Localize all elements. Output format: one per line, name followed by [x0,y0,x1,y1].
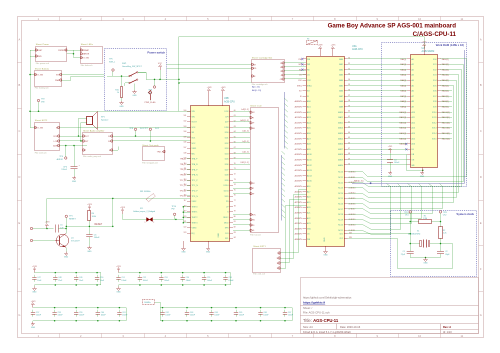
U6A ground [323,246,328,257]
System clock group box [391,211,477,277]
svg-text:GND: GND [72,181,77,183]
svg-text:61: 61 [234,115,236,117]
wire audio out to CPU [113,137,191,151]
svg-text:MA10: MA10 [338,111,343,114]
svg-text:AD8: AD8 [307,143,311,146]
svg-text:119: 119 [184,211,187,213]
svg-text:TPD_A: TPD_A [180,189,187,192]
svg-text:C4: C4 [394,159,396,161]
svg-text:MA6: MA6 [339,90,343,93]
capacitor C47 [32,275,42,282]
svg-text:File: ext2.sch: File: ext2.sch [35,151,47,154]
svg-text:101: 101 [183,115,186,117]
svg-text:Sheet: EXT1: Sheet: EXT1 [253,245,266,248]
fuse F11 Jumper_2_Bridged [133,208,176,224]
labels LCD nets [240,109,249,164]
svg-text:PBATT: PBATT [55,79,62,82]
svg-text:TPD_P: TPD_P [192,191,199,193]
svg-text:DD11: DD11 [224,191,229,193]
svg-text:130nF: 130nF [121,280,127,282]
svg-text:MA11: MA11 [338,116,343,119]
svg-text:106: 106 [183,142,186,144]
svg-text:31: 31 [348,63,350,65]
svg-text:TPA_A: TPA_A [180,158,187,161]
sheet EXT2 [35,119,60,155]
svg-text:76: 76 [234,195,236,197]
svg-text:A: A [480,37,482,41]
svg-text:68: 68 [234,152,236,154]
svg-text:117: 117 [184,200,187,202]
svg-text:GND: GND [218,233,220,238]
svg-text:A21: A21 [307,212,310,215]
capacitor C50 [95,272,105,286]
svg-text:A3: A3 [412,74,414,77]
svg-text:I/O13: I/O13 [432,128,437,130]
svg-text:SO2: SO2 [108,141,112,143]
svg-text:73: 73 [234,179,236,181]
svg-text:A25/WN: A25/WN [295,190,303,193]
svg-text:IREQ: IREQ [297,85,302,87]
svg-text:A14: A14 [412,132,415,135]
svg-text:05.NO15: 05.NO15 [349,198,356,200]
capacitor CP4 [61,145,80,176]
svg-text:A11/WN: A11/WN [295,116,303,119]
svg-text:TP14: TP14 [172,206,177,208]
svg-text:GRD: GRD [252,68,257,70]
U2 right pins [432,58,450,141]
svg-text:RA6[1]: RA6[1] [400,90,406,93]
svg-text:TPC_P: TPC_P [192,180,199,182]
svg-text:A17/WN: A17/WN [295,148,303,151]
svg-text:AD14: AD14 [307,174,312,177]
svg-text:XTC23V?: XTC23V? [71,240,81,242]
svg-text:CHARGE: CHARGE [81,53,90,56]
svg-text:RAD9[1]: RAD9[1] [442,106,450,109]
U6B power pins [207,87,227,106]
power +3V3 at C5 [45,222,51,230]
U2 ground [420,168,425,179]
svg-text:SO2: SO2 [192,143,196,145]
svg-text:Work RAM (128k x 16): Work RAM (128k x 16) [436,43,464,47]
svg-text:41: 41 [348,116,350,118]
svg-text:74: 74 [234,184,236,186]
svg-text:RAD12[1]: RAD12[1] [442,121,451,124]
svg-text:PHI: PHI [307,59,311,61]
svg-text:MA1: MA1 [339,63,343,66]
svg-text:GND: GND [32,292,37,294]
wire U6B to LCD lower [233,183,250,231]
svg-text:A16: A16 [307,185,310,188]
svg-text:120uF: 120uF [61,169,67,171]
svg-text:82: 82 [234,227,236,229]
svg-text:C/AGS-CPU-11: C/AGS-CPU-11 [413,31,457,38]
schematic title [328,23,457,38]
svg-text:AD9: AD9 [307,148,311,151]
resistor R3 DNP [307,38,318,44]
svg-text:A22: A22 [307,217,310,220]
sheet EXT1 [253,245,281,276]
svg-text:CK2: CK2 [443,215,447,217]
VCC power and TP6 [146,63,167,94]
svg-text:RAD6[1]: RAD6[1] [442,90,450,93]
svg-text:Size: A4: Size: A4 [303,325,313,329]
wire CK2 [348,239,453,269]
svg-text:TPB_A: TPB_A [180,168,187,171]
svg-text:81: 81 [234,221,236,223]
svg-text:Sheet: Power: Sheet: Power [36,43,49,46]
capacitor C4 100nF [387,146,400,178]
svg-text:ROUT: ROUT [53,136,59,138]
svg-text:A33/WN: A33/WN [295,233,303,236]
svg-text:07.NO17: 07.NO17 [349,209,356,211]
svg-text:100nF: 100nF [214,315,220,317]
svg-text:Title: AGS-CPU-11: Title: AGS-CPU-11 [303,318,339,323]
svg-text:A26/WN: A26/WN [295,196,303,199]
svg-text:A29/WN: A29/WN [295,212,303,215]
svg-text:I/O10: I/O10 [432,112,437,114]
svg-text:TPC_N: TPC_N [192,185,199,187]
sheet Power [35,43,67,65]
svg-text:DPI: DPI [251,117,255,119]
svg-text:IREQ: IREQ [307,85,312,87]
capacitor C62 [160,307,171,322]
U2 left pins [399,58,415,167]
svg-text:Sheet: LCD: Sheet: LCD [250,104,262,107]
svg-text:TPB_B: TPB_B [180,175,187,177]
svg-text:C2: C2 [445,251,447,253]
GND below U6B left [181,247,186,254]
svg-text:100nF: 100nF [288,315,294,317]
svg-text:File: lcd.sch: File: lcd.sch [250,235,261,237]
svg-text:50: 50 [348,164,350,166]
svg-text:VIN: VIN [41,101,45,103]
svg-text:DD4: DD4 [225,153,229,155]
power switch group box [105,49,167,111]
svg-text:GND: GND [206,252,211,254]
svg-text:Date: 2020-10-16: Date: 2020-10-16 [340,325,361,329]
svg-text:I/O6: I/O6 [433,91,437,93]
svg-text:RA15[1]: RA15[1] [399,137,406,140]
svg-text:REVC: REVC [251,214,257,216]
svg-text:MA12: MA12 [338,121,343,124]
svg-text:DD10: DD10 [224,185,229,187]
svg-text:A7: A7 [412,95,414,98]
svg-text:CS2: CS2 [280,79,284,81]
U6B right pins [223,110,235,240]
svg-text:MA7: MA7 [339,95,343,98]
capacitor C53 [159,272,170,286]
svg-text:130nF: 130nF [122,315,128,317]
svg-text:File: AGS-CPU-11.sch: File: AGS-CPU-11.sch [303,310,330,314]
decoupling bank row2 group1 +3V3 [31,301,127,321]
bus A[16..23] entries to U6A [282,151,286,220]
ferrite bead FB2 [143,300,161,308]
svg-text:AD1: AD1 [307,106,311,109]
svg-text:100nF: 100nF [394,162,400,164]
svg-text:AD15: AD15 [307,180,312,183]
svg-text:MA8: MA8 [339,100,343,103]
U6A right pins lower [338,172,355,233]
svg-text:38: 38 [348,100,350,102]
svg-text:I/O9: I/O9 [433,107,437,109]
svg-text:GND: GND [132,95,137,97]
svg-text:A30/WN: A30/WN [295,217,303,220]
svg-text:108: 108 [183,152,186,154]
svg-text:TEST3: TEST3 [192,222,198,224]
svg-text:RAD0[1]: RAD0[1] [442,58,450,61]
svg-text:TPC_B: TPC_B [180,185,187,187]
svg-text:SOUT: SOUT [192,122,198,124]
svg-text:MA5: MA5 [339,84,343,87]
svg-text:A12/WN: A12/WN [295,121,303,124]
svg-text:LOUT: LOUT [83,141,89,143]
svg-text:R3: R3 [307,38,309,40]
svg-text:AD5: AD5 [307,127,311,130]
test point TP2 [29,99,45,112]
svg-text:AD2: AD2 [307,111,311,114]
resistor R1 1.5M [410,215,440,223]
svg-text:104: 104 [183,131,186,133]
svg-text:MOD: MOD [224,222,229,224]
svg-text:A: A [19,37,21,41]
svg-text:F11: F11 [140,208,143,210]
svg-text:A15: A15 [412,137,415,140]
svg-text:SW1-L: SW1-L [109,61,116,63]
svg-text:MA3: MA3 [339,74,343,77]
svg-text:A11: A11 [412,116,415,119]
svg-text:MA18: MA18 [338,153,343,156]
capacitor C51 [116,275,127,282]
bus RAD vertical [464,50,466,183]
svg-text:1: 1 [144,222,145,224]
svg-text:DD6: DD6 [225,164,229,166]
svg-text:NC19: NC19 [338,219,343,221]
svg-text:A24/WN: A24/WN [295,185,303,188]
wire RESET rail [47,198,191,223]
svg-text:AD3: AD3 [307,116,311,119]
decoupling bank row2 group2 [160,308,293,321]
svg-text:FW: FW [172,209,175,211]
test point TP11 CK2 [439,211,447,227]
svg-text:File: leds.sch: File: leds.sch [81,65,93,67]
svg-text:00.NO10: 00.NO10 [349,225,356,227]
svg-text:RAD10[1]: RAD10[1] [442,111,451,114]
svg-text:DD8: DD8 [225,175,229,177]
svg-text:130nF: 130nF [58,315,64,317]
svg-text:MA19: MA19 [338,159,343,162]
svg-text:MOD: MOD [251,220,256,222]
svg-text:102: 102 [183,121,186,123]
test point TP3 [30,227,53,229]
svg-text:A1: A1 [412,63,414,66]
svg-text:100nF: 100nF [165,315,171,317]
svg-text:A15/WN: A15/WN [295,137,303,140]
U6A clock pins [339,232,352,240]
svg-text:RA5[1]: RA5[1] [400,84,406,87]
svg-text:AGB-CPU: AGB-CPU [224,100,235,103]
GND row1 group1 [32,285,37,294]
svg-text:A18: A18 [307,196,310,199]
svg-text:100nF: 100nF [263,315,269,317]
svg-text:D: D [18,175,20,179]
bus label A[0..15] [252,85,262,92]
svg-text:NC17: NC17 [338,209,343,211]
svg-text:AUDIO: AUDIO [57,158,64,161]
svg-text:FB1 100MHz: FB1 100MHz [140,191,151,193]
svg-text:C: C [480,129,482,133]
U2 no-connect marks [405,143,407,151]
svg-text:AD6: AD6 [307,132,311,135]
svg-text:MA16: MA16 [338,143,343,146]
svg-text:A9: A9 [412,106,414,109]
sheet Test pads [142,144,165,165]
svg-text:https://gekkio.fi: https://gekkio.fi [303,301,325,305]
svg-text:NC14: NC14 [338,193,343,195]
capacitor C56 [223,272,234,286]
switch SW1 [107,63,147,86]
labels TPA nets [180,158,191,198]
crystal X1 [408,231,441,248]
svg-text:GND: GND [116,292,121,294]
svg-text:100k: 100k [92,216,96,218]
test point TP4 AUDIO [57,145,67,161]
switch pole GND [132,84,137,98]
svg-text:121: 121 [183,221,186,223]
svg-text:A18/WN: A18/WN [295,153,303,156]
svg-text:System clock: System clock [456,212,474,216]
sheet Buttons [35,67,62,89]
svg-text:TPA_P: TPA_P [192,158,199,161]
svg-text:TP[9..10]: TP[9..10] [157,151,165,153]
svg-text:AD[0..15]: AD[0..15] [252,89,262,92]
U6A no-connect marks [301,58,303,71]
svg-text:RAD13[1]: RAD13[1] [442,127,451,130]
svg-text:NC10: NC10 [338,172,343,174]
svg-text:I/O2: I/O2 [433,69,437,71]
svg-text:105: 105 [183,136,186,138]
svg-text:B: B [19,83,21,87]
svg-text:100nF: 100nF [79,315,85,317]
capacitor C48 [53,272,63,286]
svg-text:80: 80 [234,216,236,218]
svg-text:A08/WN: A08/WN [295,100,303,103]
svg-text:RA0[1]: RA0[1] [400,58,406,61]
svg-text:A5: A5 [412,84,414,87]
svg-text:Ld3[1..5]: Ld3[1..5] [241,109,249,111]
svg-text:CS2: CS2 [307,80,311,82]
svg-text:TPD_B: TPD_B [180,196,187,198]
svg-text:E: E [480,221,482,225]
test point TP5 [109,59,116,77]
svg-text:DPL: DPL [225,238,229,240]
svg-text:123: 123 [183,232,186,234]
svg-text:B: B [480,83,482,87]
svg-text:122: 122 [183,227,186,229]
svg-text:107: 107 [183,147,186,149]
svg-text:SW: SW [109,150,112,152]
svg-text:RA10[1]: RA10[1] [399,111,406,114]
GND row2 group1 [31,321,36,329]
svg-text:TPA_B: TPA_B [180,163,187,166]
svg-text:78: 78 [234,205,236,207]
svg-text:FIQ: FIQ [192,233,196,235]
svg-text:I/O11: I/O11 [432,117,436,119]
svg-text:Ld[1..5]: Ld[1..5] [242,141,249,143]
svg-text:VDD: VDD [225,196,230,198]
svg-text:100nF: 100nF [101,315,107,317]
svg-text:I/O1: I/O1 [433,64,437,66]
svg-text:DPI: DPI [251,188,255,190]
bus A[0..15] entries to U6A [284,92,288,149]
U6B ground pins [184,241,209,247]
bus RAD[0..15] horizontal [352,180,465,185]
svg-text:File: battery.sch: File: battery.sch [35,87,49,90]
svg-text:03.NO13: 03.NO13 [349,187,356,189]
svg-text:A4: A4 [412,79,414,82]
svg-text:CK1: CK1 [339,234,343,236]
svg-text:77: 77 [234,200,236,202]
svg-text:E: E [19,221,21,225]
svg-text:G: G [18,313,20,317]
svg-text:NC11: NC11 [338,177,343,179]
wire VIN to CPU [30,111,191,127]
svg-text:DD9: DD9 [225,180,229,182]
svg-text:MA2: MA2 [339,68,343,71]
svg-text:VCC: VCC [158,63,163,65]
svg-text:I/O12: I/O12 [432,122,437,124]
svg-text:67: 67 [234,147,236,149]
svg-text:VSS2: VSS2 [192,201,197,203]
svg-text:PHI: PHI [307,239,311,241]
svg-text:AGB-SRAM: AGB-SRAM [422,50,435,53]
svg-text:A19: A19 [307,201,310,204]
svg-text:AD12: AD12 [307,164,312,167]
sheet Cartridge Slot [252,56,285,86]
svg-text:AD10: AD10 [307,153,312,156]
resistor R2 2.2k [439,227,447,252]
svg-text:2.2k: 2.2k [443,233,447,235]
svg-text:Speaker: Speaker [101,119,109,121]
svg-text:Rev: A: Rev: A [443,325,451,329]
svg-text:Sheet: LEDs: Sheet: LEDs [81,43,94,46]
svg-text:File: testpads.sch: File: testpads.sch [142,162,158,165]
capacitor C59 [74,307,85,322]
title block [300,278,479,334]
svg-text:VSS1: VSS1 [192,148,197,150]
svg-text:RA12[1]: RA12[1] [399,121,406,124]
svg-text:A2: A2 [412,68,414,71]
IC U6A AGB-CPU [307,45,364,247]
svg-text:LM1[1..5]: LM1[1..5] [241,162,249,164]
U6A power pins [318,45,337,56]
sheet Audio amplifier [83,130,113,159]
svg-text:I/O5: I/O5 [433,85,437,87]
svg-text:1k: 1k [117,92,119,94]
capacitor C55 [202,272,213,286]
svg-text:NC15: NC15 [338,198,343,200]
svg-text:100MHz: 100MHz [144,302,151,304]
svg-text:120: 120 [183,216,186,218]
svg-text:A12: A12 [412,121,415,124]
wire VCC rail right [167,37,425,112]
svg-text:RA2[1]: RA2[1] [400,68,406,71]
svg-text:NC18: NC18 [338,214,343,216]
svg-text:32: 32 [348,68,350,70]
capacitor C5 [56,225,67,233]
capacitor C65 [234,307,245,322]
svg-text:64: 64 [234,131,236,133]
svg-text:PHI: PHI [280,63,284,65]
